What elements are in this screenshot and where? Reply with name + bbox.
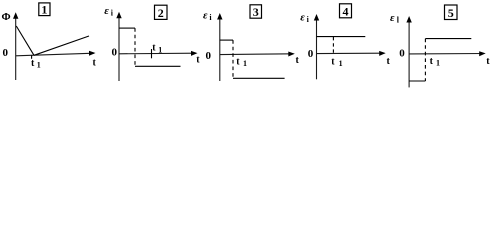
svg-text:ε: ε	[203, 9, 208, 21]
svg-text:ε: ε	[104, 5, 109, 17]
x-axis P3	[220, 52, 295, 57]
wire: constant positive level P4	[317, 36, 366, 38]
svg-text:0: 0	[399, 47, 405, 59]
label epsilon-i P4	[300, 11, 309, 24]
label t1 P2	[152, 43, 162, 55]
svg-text:0: 0	[3, 47, 9, 59]
svg-text:0: 0	[308, 48, 314, 60]
y-axis P5	[406, 16, 411, 87]
y-axis P1	[13, 12, 18, 80]
label t1 P5	[430, 56, 440, 68]
x-axis P4	[317, 51, 386, 56]
tick t1 P1	[31, 55, 33, 59]
svg-text:1: 1	[339, 59, 343, 68]
label t1 P1	[31, 58, 41, 70]
svg-text:1: 1	[37, 61, 41, 70]
box 4	[340, 4, 352, 18]
wire: negative level P5	[409, 80, 425, 82]
svg-text:ε: ε	[390, 12, 395, 24]
x-axis P2	[119, 51, 198, 56]
wire: negative level P3	[233, 77, 285, 79]
svg-text:5: 5	[448, 6, 454, 20]
wire: positive level P5	[425, 38, 471, 40]
svg-text:1: 1	[41, 3, 47, 17]
x-axis P1	[16, 51, 96, 56]
svg-text:1: 1	[243, 59, 247, 68]
svg-text:1: 1	[158, 46, 162, 55]
svg-text:Φ: Φ	[2, 11, 11, 23]
x-axis P5	[409, 51, 486, 56]
box 3	[250, 5, 262, 19]
dashed rise at t1 P5	[424, 39, 426, 81]
label epsilon-l P5	[390, 12, 400, 25]
wire: descending flux line	[16, 26, 34, 55]
label t1 P4	[331, 56, 342, 68]
dashed marker at t1 P4	[332, 37, 334, 54]
svg-text:1: 1	[436, 59, 440, 68]
svg-text:3: 3	[253, 5, 259, 19]
svg-text:ε: ε	[300, 11, 305, 23]
box 1	[39, 3, 50, 17]
y-axis P2	[116, 12, 121, 81]
y-axis P4	[314, 14, 319, 79]
svg-text:2: 2	[158, 6, 164, 20]
wire: rising flux line	[34, 36, 89, 55]
svg-text:4: 4	[343, 4, 349, 18]
wire: positive step P2	[119, 27, 135, 29]
tick t1 P2	[151, 49, 153, 58]
svg-text:0: 0	[112, 47, 118, 59]
label epsilon-i P2	[104, 5, 113, 18]
y-axis P3	[217, 13, 222, 81]
wire: positive step P3	[220, 39, 233, 41]
wire: negative level P2	[135, 65, 181, 67]
dashed drop at t1 P3	[232, 40, 234, 78]
label epsilon-i P3	[203, 9, 212, 22]
dashed drop at t1 P2	[134, 28, 136, 66]
label t1 P3	[236, 56, 247, 68]
box 5	[445, 5, 458, 20]
box 2	[155, 5, 168, 20]
svg-text:0: 0	[206, 50, 212, 62]
